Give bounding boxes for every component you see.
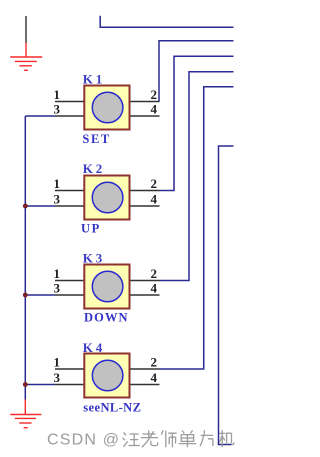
K1 pin 2 lead [130,101,160,103]
svg-text:K3: K3 [83,251,103,266]
K1 pin 1 lead [55,101,84,103]
svg-text:4: 4 [151,281,158,296]
svg-text:seeNL-NZ: seeNL-NZ [83,401,141,415]
junction node at K2 pin3 [23,204,28,209]
switch K2 [54,161,160,235]
K2 pin 1 lead [55,190,84,192]
wire net 2 to K1 pin2 [159,41,234,102]
svg-text:SET: SET [82,132,110,146]
watermark chinese glyphs [123,430,234,447]
K4 pin 1 lead [55,368,84,370]
switch K1 [54,72,160,146]
K1 pin 3 lead [55,115,84,117]
K4 pin 2 lead [130,368,160,370]
svg-text:3: 3 [54,281,61,296]
svg-text:2: 2 [151,176,158,191]
K2 pin 4 lead [130,205,160,207]
svg-text:4: 4 [151,370,158,385]
svg-text:1: 1 [54,176,61,191]
svg-text:K2: K2 [83,161,102,176]
junction node at K3 pin3 [23,293,28,298]
svg-text:K1: K1 [83,72,102,87]
K2 pin 3 lead [55,205,84,207]
svg-text:3: 3 [54,370,61,385]
wire net stub 1 (top) [100,16,233,28]
char ji [219,430,233,447]
char wang [123,433,140,447]
wire net 3 to K2 pin2 [160,56,234,190]
svg-text:1: 1 [54,355,61,370]
svg-text:1: 1 [54,266,61,281]
switch K4 [54,340,160,414]
svg-text:K4: K4 [83,340,103,355]
K1 body [84,86,129,130]
K3 pin 1 lead [55,280,84,282]
K2 pin 2 lead [130,190,160,192]
wire: bus branch to K1 pin3 [25,115,55,117]
svg-text:DOWN: DOWN [84,311,129,325]
switch K3 [54,251,160,325]
char dan [179,430,197,447]
K2 button cap [92,182,123,213]
K3 pin 3 lead [55,294,84,296]
wire: bus branch to K4 pin3 [25,384,55,386]
svg-text:2: 2 [151,87,158,102]
svg-text:2: 2 [151,266,158,281]
K4 body [84,354,129,398]
svg-text:4: 4 [151,192,158,207]
K4 pin 4 lead [130,384,160,386]
svg-text:2: 2 [151,355,158,370]
K3 body [84,265,129,309]
char pian [200,430,213,446]
K3 pin 4 lead [130,294,160,296]
K4 pin 3 lead [55,384,84,386]
char shi [161,430,176,447]
wire: left ground bus (vertical) [24,116,26,400]
ground GND2 bottom-left [10,400,41,428]
wire: bus branch to K2 pin3 [25,205,55,207]
wire: bus branch to K3 pin3 [25,294,55,296]
wire net 5 to K4 pin2 [160,87,234,369]
junction node at K4 pin3 [23,382,28,387]
char lao [141,430,158,447]
K1 pin 4 lead [130,115,160,117]
ground GND1 top-left: wire stub [25,16,27,43]
K3 pin 2 lead [130,280,160,282]
K2 body [84,176,129,220]
svg-text:CSDN @: CSDN @ [47,432,120,449]
K4 button cap [92,360,123,391]
ground GND1 symbol [10,43,42,71]
svg-text:UP: UP [81,222,101,236]
K3 button cap [92,271,123,302]
K1 button cap [92,92,123,123]
svg-text:3: 3 [54,101,61,116]
svg-text:1: 1 [54,87,61,102]
svg-text:3: 3 [54,192,61,207]
wire net 4 to K3 pin2 [160,72,234,281]
wire net 6 (right C-shape) [219,146,234,445]
svg-text:4: 4 [151,101,158,116]
